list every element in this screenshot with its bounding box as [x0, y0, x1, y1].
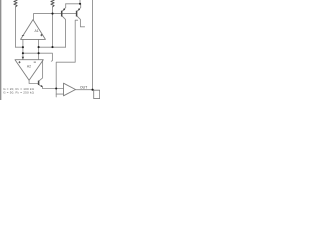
- transistor Q1 bar: [61, 11, 63, 17]
- transistor Q2 emitter: [77, 4, 81, 12]
- node dot right input/feedback: [38, 46, 40, 48]
- node dot emitter line: [55, 87, 57, 89]
- transistor Q2 collector: [77, 16, 85, 27]
- Q3 emitter arrow (NPN): [41, 85, 43, 87]
- svg-text:A2: A2: [27, 65, 31, 69]
- wire Q1 collector to feedback node: [39, 46, 66, 48]
- node dot R2/base line: [51, 13, 53, 15]
- left border strip: [0, 0, 1, 100]
- op-amp A1: [21, 20, 46, 40]
- transistor Q3 emitter: [39, 85, 64, 89]
- transistor Q1 collector: [62, 16, 66, 47]
- wire R1 to node: [16, 46, 23, 48]
- label A2 minus: [34, 61, 36, 63]
- wire Q2 area down-run: [56, 20, 77, 97]
- transistor Q3 collector: [39, 60, 43, 81]
- wire right input vertical: [38, 39, 40, 59]
- resistor R1 (top-left, cut off at top): [14, 0, 17, 7]
- Q2 emitter arrow (PNP): [78, 8, 80, 11]
- wire A3 output: [76, 89, 94, 91]
- wire mid horizontal: [23, 53, 53, 61]
- svg-text:G = 50, R1 = 250 kΩ: G = 50, R1 = 250 kΩ: [3, 91, 34, 95]
- node dot R2/feedback line: [51, 46, 53, 48]
- resistor R2 (top-middle, cut off at top): [51, 0, 54, 7]
- A2 plus-input arrow: [22, 57, 24, 60]
- svg-text:OUT: OUT: [80, 85, 87, 89]
- node dot rail: [79, 3, 81, 5]
- wire A2 output to Q3 base: [29, 80, 38, 83]
- transistor Q2 bar: [76, 11, 78, 17]
- label A1 plus: [40, 34, 42, 36]
- Q1 emitter arrow (PNP): [63, 8, 65, 11]
- wire top rail: [66, 3, 80, 5]
- svg-text:A1: A1: [35, 29, 39, 33]
- node dot right input/mid line: [38, 52, 40, 54]
- wire right vertical long: [92, 0, 94, 90]
- wire rail stub up: [79, 0, 81, 4]
- output box: [94, 90, 100, 98]
- node dot output: [91, 89, 93, 91]
- node dot left input/mid line: [22, 52, 24, 54]
- wire A1 output to bases: [34, 14, 77, 20]
- label A1 minus: [22, 34, 24, 36]
- node dot R1/left input: [22, 46, 24, 48]
- op-amp A3: [64, 83, 76, 96]
- wire R2 down: [52, 7, 54, 47]
- op-amp A2: [15, 60, 43, 80]
- wire R1 down: [15, 7, 17, 47]
- label A2 plus: [18, 61, 20, 63]
- background: [0, 0, 100, 100]
- transistor Q3 bar: [38, 81, 40, 85]
- transistor Q1 emitter: [62, 4, 66, 12]
- wire A3 plus input: [56, 93, 63, 95]
- wire left input vertical: [22, 39, 24, 59]
